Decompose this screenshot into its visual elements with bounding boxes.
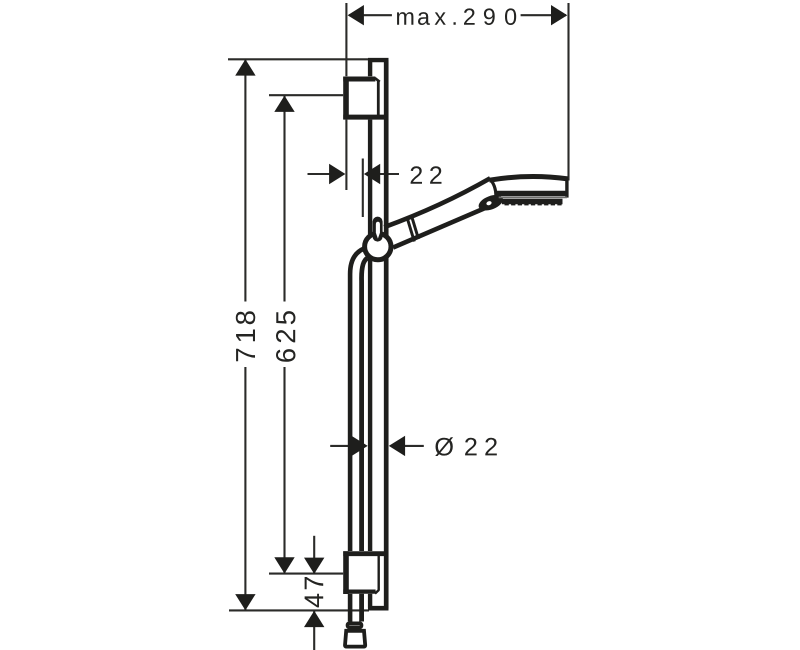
arrow diameter left (over hose) <box>351 436 367 456</box>
top wall bracket fill <box>343 76 380 119</box>
dimension 22 (holder offset) <box>308 173 333 175</box>
top wall bracket bottom edge <box>343 115 388 120</box>
shower head top edge <box>489 177 568 181</box>
dimension line max.290 <box>349 14 392 16</box>
hand shower handle lower edge <box>393 209 484 248</box>
shower hose inner edge <box>362 258 368 622</box>
arrow 718 down <box>235 594 255 610</box>
spray nozzles <box>505 204 562 206</box>
top wall bracket bevel <box>375 78 380 82</box>
label max.290 <box>397 8 516 25</box>
arrow 22 left-pointing <box>364 164 380 184</box>
shower head face thin line <box>499 196 567 198</box>
label 22 <box>411 166 442 183</box>
bottom wall bracket fill <box>343 551 380 594</box>
label 47 <box>305 577 324 607</box>
shower head right edge <box>565 179 568 198</box>
arrow max.290 left <box>348 5 364 25</box>
shower head face band upper <box>494 191 566 196</box>
wall bar rod right edge <box>384 60 389 609</box>
arrow 625 down <box>274 557 294 573</box>
arrow 718 up <box>235 59 255 75</box>
slider lever <box>373 217 383 242</box>
handle grip tick 1 <box>408 220 415 242</box>
shower head neck hook <box>476 192 505 214</box>
dimension Ø22 (bar diameter) <box>330 445 353 447</box>
arrow 22 right-pointing <box>329 164 345 184</box>
wall bar rod bottom cap <box>368 606 389 611</box>
bottom wall bracket right edge <box>378 556 380 591</box>
shower head spray band <box>502 199 563 205</box>
dimension line 625 <box>283 96 285 302</box>
label 625 <box>276 311 295 362</box>
shower hose outer edge <box>350 249 364 622</box>
arrow 625 up <box>274 96 294 112</box>
extension line top of bar (718 top) <box>228 58 369 60</box>
top wall bracket top edge <box>343 77 375 82</box>
top wall bracket left edge <box>343 77 349 120</box>
handle grip tick 2 <box>412 218 419 240</box>
wall bar rod left edge <box>368 60 372 609</box>
arrow diameter right <box>389 436 405 456</box>
arrow 47 down <box>304 558 324 574</box>
slider holder circle <box>365 233 391 259</box>
shower head left cap <box>490 180 496 198</box>
dimension line 718 <box>244 60 246 302</box>
wall bar rod top cap <box>368 58 389 62</box>
label 718 <box>236 311 255 361</box>
bottom wall bracket top edge <box>343 551 388 556</box>
bottom wall bracket left edge <box>343 551 349 594</box>
extension line vertical right (max.290 right) <box>567 3 569 181</box>
top wall bracket right edge <box>377 81 380 116</box>
hose end cone <box>345 631 365 647</box>
hand shower handle upper edge <box>384 178 490 227</box>
dimension line 47 <box>313 536 315 574</box>
arrow 47 up <box>304 611 324 627</box>
extension line bottom of bar (718 / 47 bottom) <box>229 609 369 611</box>
hose end nut <box>348 623 362 627</box>
bottom wall bracket bevel <box>375 590 379 594</box>
label Ø22 <box>435 437 497 456</box>
extension line vertical 22 right <box>362 159 364 218</box>
bottom wall bracket bottom edge <box>343 589 375 593</box>
extension line bottom bracket (625 bottom / 47 top) <box>269 573 347 575</box>
extension line vertical left (max.290 left / 22 left) <box>345 3 347 190</box>
arrow max.290 right <box>551 5 567 25</box>
extension line top bracket (625 top) <box>269 94 344 96</box>
